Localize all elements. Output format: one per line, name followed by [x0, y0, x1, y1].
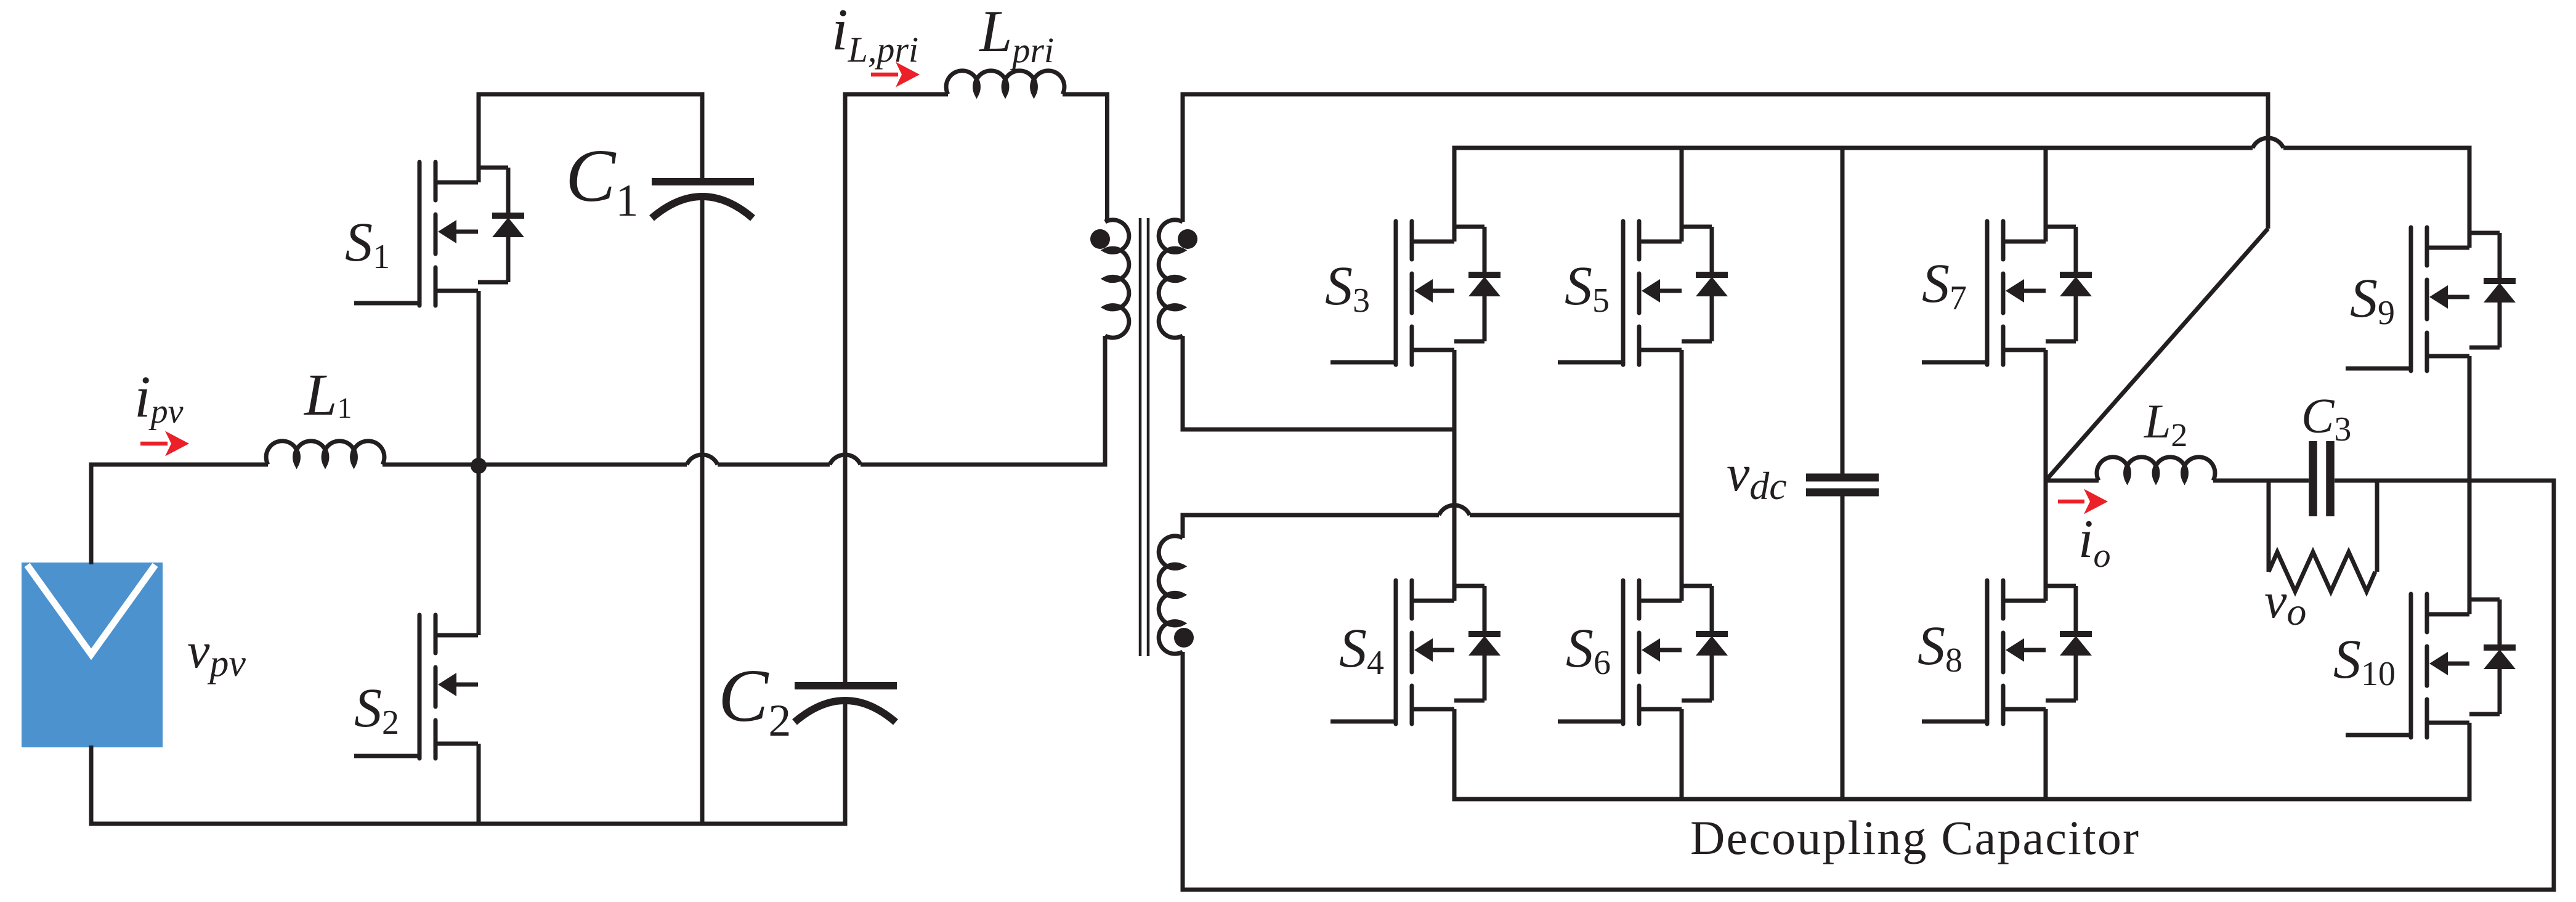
wire S4 source to dc bus bottom	[1452, 709, 1457, 802]
svg-text:Lpri: Lpri	[978, 0, 1054, 70]
wire lower secondary top wire with hop over S3/S4 leg	[1183, 505, 1682, 538]
inductor L1	[266, 441, 384, 465]
diode S5 body	[1682, 227, 1728, 341]
transistor S1	[354, 162, 478, 306]
svg-text:S5: S5	[1565, 256, 1610, 320]
wire diagonal to output node	[2046, 229, 2268, 481]
wire S3 drain to dc bus top	[1452, 146, 1457, 242]
wire top-left rail	[477, 92, 705, 97]
wire S3 source through midpoint down to S4 drain	[1452, 350, 1457, 601]
wire primary bottom to mid wire	[1103, 336, 1108, 465]
svg-text:L1: L1	[303, 362, 352, 428]
diode S3 body	[1454, 227, 1501, 341]
transistor S7	[1922, 221, 2046, 365]
wire right edge vertical	[2552, 481, 2556, 892]
wire C3 to right corner	[2335, 479, 2556, 483]
inductor L_pri	[946, 71, 1064, 94]
wire dc bus top rail with hop at diagonal leg	[1454, 138, 2472, 148]
resistor v_o left leg	[2267, 481, 2271, 572]
wire S10 source to dc bus bottom	[2468, 723, 2472, 799]
wire upper secondary bottom to S3/S4 midpoint	[1183, 336, 1454, 429]
wire S9 drain to dc bus top	[2468, 148, 2472, 248]
wire S2 source to bottom rail	[477, 744, 481, 824]
svg-text:C1: C1	[565, 134, 638, 226]
svg-text:S3: S3	[1325, 256, 1370, 320]
diode S6 body	[1682, 586, 1728, 701]
svg-text:L2: L2	[2144, 394, 2187, 453]
wire S5 drain to dc bus top	[1680, 148, 1684, 242]
wire S9 source through output wire to S10 drain	[2468, 356, 2472, 614]
wire top rail	[1181, 92, 2270, 97]
diode S10 body	[2469, 599, 2516, 714]
wire S7 drain to dc bus top	[2044, 148, 2048, 242]
transistor S5	[1558, 221, 1682, 365]
svg-text:S9: S9	[2350, 268, 2395, 332]
diode S4 body	[1454, 586, 1501, 701]
wire upper secondary top to top rail	[1181, 92, 1185, 222]
svg-text:Decoupling Capacitor: Decoupling Capacitor	[1690, 811, 2139, 864]
wire S7 source to output node	[2044, 350, 2048, 481]
diode S8 body	[2046, 586, 2092, 701]
wire middle-loop top rail	[843, 92, 949, 97]
svg-text:S10: S10	[2333, 629, 2396, 693]
wire top rail corner down to diagonal	[2266, 94, 2270, 229]
svg-text:S2: S2	[354, 678, 399, 742]
wire PV top to mid wire	[89, 463, 94, 565]
wire dc bus bottom rail	[1454, 797, 2472, 802]
wire bottom rail	[1181, 888, 2556, 892]
svg-text:S1: S1	[345, 212, 390, 276]
transistor S2 (no body diode)	[354, 615, 478, 758]
svg-text:S8: S8	[1918, 616, 1962, 680]
capacitor v_dc	[1806, 148, 1879, 799]
transformer core	[1140, 218, 1148, 656]
node primary dot	[1090, 229, 1110, 249]
resistor v_o right leg	[2375, 481, 2380, 572]
inductor L2	[2097, 457, 2215, 481]
svg-text:C2: C2	[718, 654, 791, 746]
transistor S6	[1558, 580, 1682, 724]
capacitor C2	[795, 97, 897, 826]
svg-text:S6: S6	[1566, 618, 1611, 682]
wire output node to L2	[2046, 479, 2099, 483]
wire S1 source to junction	[477, 291, 481, 465]
resistor v_o	[2269, 552, 2375, 591]
wire S2 drain to junction	[477, 466, 481, 635]
transistor S4	[1331, 580, 1454, 724]
wire S6 source to dc bus bottom	[1680, 709, 1684, 799]
wire bottom-left rail	[89, 822, 846, 826]
transistor S10	[2346, 594, 2469, 737]
capacitor C3	[2313, 441, 2330, 516]
diode S9 body	[2469, 233, 2516, 347]
node upper secondary dot	[1178, 229, 1197, 249]
svg-text:vpv: vpv	[187, 622, 246, 685]
wire L2 to C3	[2213, 479, 2309, 483]
svg-text:ipv: ipv	[134, 364, 184, 431]
svg-text:C3: C3	[2301, 389, 2351, 449]
diode S1 body	[478, 168, 524, 282]
node lower secondary dot	[1174, 628, 1194, 648]
transistor S9	[2346, 227, 2469, 371]
arrow i_o	[2058, 489, 2108, 514]
arrow i_L,pri	[871, 62, 920, 87]
transformer upper secondary winding	[1159, 220, 1183, 338]
wire lower secondary bottom to bottom rail	[1181, 652, 1185, 892]
svg-text:S7: S7	[1922, 253, 1967, 317]
diode S7 body	[2046, 227, 2092, 341]
svg-text:iL,pri: iL,pri	[832, 0, 918, 70]
transformer primary winding	[1105, 220, 1129, 338]
wire S5 source through lower-secondary junction to S6 drain	[1680, 350, 1684, 601]
arrow i_pv	[140, 431, 189, 457]
wire mid wire left of L1	[89, 463, 269, 467]
wire L_pri to transformer primary top	[1063, 94, 1108, 222]
transformer lower secondary winding	[1159, 536, 1183, 654]
wire S8 source to dc bus bottom	[2044, 709, 2048, 799]
svg-text:vdc: vdc	[1727, 445, 1787, 508]
svg-text:io: io	[2078, 510, 2110, 575]
PV panel	[22, 563, 163, 747]
transistor S3	[1331, 221, 1454, 365]
wire PV bottom to bottom rail	[89, 746, 94, 826]
svg-text:S4: S4	[1339, 618, 1384, 682]
wire S8 drain to output node	[2044, 481, 2048, 601]
wire mid wire L1 to primary, hops at C1 and C2 legs	[383, 455, 1108, 465]
node junction L1/S1/S2	[471, 458, 487, 474]
transistor S8	[1922, 580, 2046, 724]
wire S1 drain to top rail	[477, 92, 481, 183]
capacitor C1	[652, 94, 754, 824]
